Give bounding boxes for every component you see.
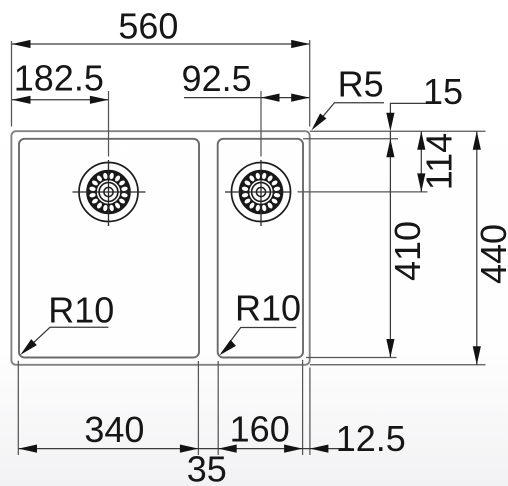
ext drain center right [298, 191, 428, 193]
left drain strainer [79, 163, 138, 222]
left bowl 340x [19, 139, 199, 358]
dimension lines [12, 44, 477, 449]
bottom 160 arrows [218, 445, 237, 453]
svg-text:12.5: 12.5 [336, 418, 406, 459]
right drain strainer [232, 163, 291, 222]
410 arrows [386, 139, 394, 158]
svg-text:182.5: 182.5 [14, 58, 104, 99]
leader R5 [314, 103, 385, 128]
svg-text:160: 160 [230, 409, 290, 450]
drain crosshairs [73, 160, 291, 226]
ext divider left [197, 361, 199, 455]
leader 15 [390, 103, 428, 113]
svg-text:410: 410 [387, 221, 428, 281]
svg-text:340: 340 [84, 409, 144, 450]
svg-text:35: 35 [187, 448, 227, 486]
svg-text:R10: R10 [235, 288, 301, 329]
right bowl 160x410 [218, 139, 303, 358]
right drain crosshair [225, 191, 291, 193]
182.5 arrows [12, 96, 31, 104]
ext left drain centerline up [108, 91, 110, 157]
bottom 12.5 outside arrow [310, 445, 329, 453]
left drain crosshair [73, 191, 146, 193]
svg-text:R10: R10 [48, 290, 114, 331]
ext outer bottom right [310, 364, 486, 366]
ext left outer [11, 41, 13, 127]
R10 left leader arrow [18, 339, 37, 358]
svg-text:R5: R5 [338, 64, 384, 105]
ext bowl bottom right [306, 357, 397, 359]
dim line 114 vertical [420, 131, 422, 192]
svg-text:114: 114 [419, 133, 460, 190]
svg-text:15: 15 [423, 71, 463, 112]
ext right outer [309, 40, 311, 127]
R10 right leader arrow [217, 340, 236, 358]
114 arrows [417, 131, 425, 150]
bottom 340 arrows [19, 445, 38, 453]
extension lines [12, 40, 486, 455]
sink outer rim 560x440 [11, 131, 309, 365]
ext 340 left [17, 361, 19, 455]
svg-text:560: 560 [118, 5, 178, 46]
svg-text:440: 440 [473, 224, 508, 284]
dim line 440 vertical [476, 131, 478, 365]
ext outer right bottom [309, 368, 311, 456]
440 arrows [473, 131, 481, 150]
leader R10 right [222, 328, 297, 354]
dim line 560 [12, 43, 310, 45]
ext right drain centerline up [260, 91, 262, 157]
dim line 182.5 [12, 99, 108, 101]
ext divider right [217, 361, 219, 455]
ext bowl top right [303, 138, 398, 140]
leader R10 left [23, 327, 109, 353]
dim line bottom 340/35/160/12.5 [19, 448, 351, 450]
arrowheads [12, 40, 481, 453]
15 down arrow [386, 113, 394, 132]
ext right bowl right [302, 360, 304, 455]
dim line 410 vertical [389, 139, 391, 358]
dim line 92.5 [184, 97, 310, 99]
560 arrows [12, 40, 31, 48]
92.5 arrows [261, 94, 280, 102]
svg-text:92.5: 92.5 [182, 58, 252, 99]
ext top edge right [310, 130, 486, 132]
R5 leader arrow [308, 113, 326, 132]
